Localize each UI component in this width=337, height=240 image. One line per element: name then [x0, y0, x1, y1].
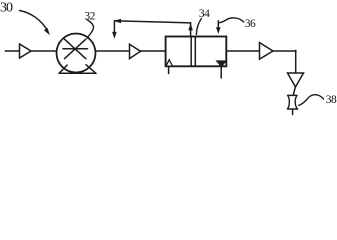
svg-text:38: 38 — [326, 94, 337, 106]
svg-text:30: 30 — [0, 0, 13, 15]
svg-text:36: 36 — [245, 18, 256, 30]
svg-text:32: 32 — [84, 10, 95, 22]
svg-text:34: 34 — [199, 8, 210, 20]
